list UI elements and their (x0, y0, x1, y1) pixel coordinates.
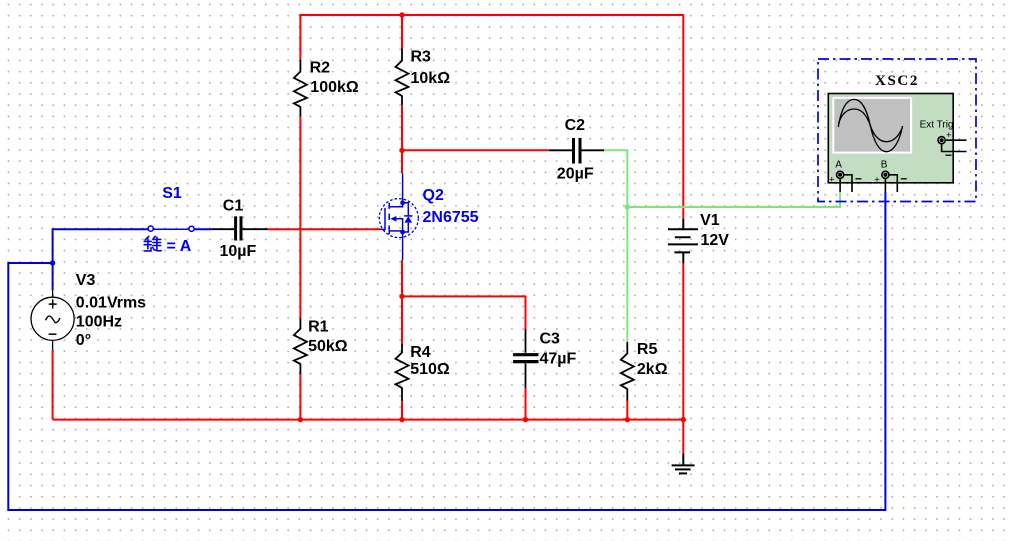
svg-text:12V: 12V (701, 232, 730, 249)
switch S1 (148, 226, 194, 231)
svg-text:2kΩ: 2kΩ (637, 361, 668, 378)
svg-text:= A: = A (167, 238, 192, 255)
battery V1 (668, 219, 698, 263)
wire green node to scope A (627, 192, 840, 207)
node junction rail/R1 (298, 417, 303, 422)
svg-text:2N6755: 2N6755 (423, 209, 479, 226)
wire input node up and right to S1 (53, 229, 149, 263)
svg-text:Ext Trig: Ext Trig (920, 119, 954, 130)
node junction V3/input (50, 260, 55, 265)
svg-text:0°: 0° (76, 332, 91, 349)
wire gate red from C1 to Q2 (268, 228, 381, 230)
label S1 key (144, 236, 161, 251)
svg-text:10kΩ: 10kΩ (411, 70, 451, 87)
oscilloscope XSC2 dashed box (818, 59, 976, 202)
node junction drain row (399, 148, 404, 153)
svg-text:+: + (874, 174, 880, 185)
wire Q2 source to source node (401, 260, 403, 296)
wire drain node to C2 (402, 149, 549, 151)
node junction top rail / R3 (399, 12, 404, 17)
svg-text:C1: C1 (223, 197, 244, 214)
wire C2 to green node (output net) (604, 150, 627, 342)
wire rail to ground (682, 420, 684, 454)
svg-text:R3: R3 (411, 48, 432, 65)
oscilloscope XSC2 body (828, 94, 953, 183)
svg-text:100kΩ: 100kΩ (310, 79, 359, 96)
oscilloscope Ext Trig connector (938, 137, 967, 152)
wire C3 bottom to rail (525, 388, 527, 420)
wire R2 bottom to R1 top (299, 116, 301, 318)
wire R1 bottom to rail (299, 374, 301, 420)
svg-text:10µF: 10µF (220, 243, 257, 260)
svg-text:Q2: Q2 (423, 187, 444, 204)
svg-text:+: + (829, 174, 835, 185)
node junction rail/R4 (399, 417, 404, 422)
ground (672, 453, 695, 473)
resistor R2 (294, 60, 307, 117)
node junction source row (399, 294, 404, 299)
oscilloscope waveform A (838, 99, 902, 151)
svg-text:S1: S1 (162, 185, 182, 202)
oscilloscope A connector (837, 171, 853, 192)
wire R2 top from rail (299, 14, 301, 60)
svg-text:47µF: 47µF (540, 350, 577, 367)
wire source node to C3 top (402, 296, 526, 329)
node junction rail/ground (681, 417, 686, 422)
wire V1 bottom to rail (682, 263, 684, 420)
label Ext Trig minus (946, 154, 952, 156)
svg-text:C3: C3 (540, 330, 561, 347)
svg-text:R2: R2 (310, 59, 331, 76)
wire R5 bottom to rail (626, 401, 628, 420)
oscilloscope B connector (882, 171, 897, 192)
svg-text:+: + (946, 130, 952, 141)
node junction green output (625, 204, 630, 209)
svg-text:C2: C2 (565, 117, 586, 134)
wire R3 top from rail (401, 14, 403, 49)
wire input node left to outer loop (8, 192, 885, 510)
svg-text:XSC2: XSC2 (875, 73, 919, 89)
svg-text:20µF: 20µF (557, 165, 594, 182)
svg-text:50kΩ: 50kΩ (308, 338, 348, 355)
wire top VDD rail (300, 14, 683, 16)
svg-text:B: B (881, 160, 888, 171)
source V3 (31, 290, 74, 350)
svg-text:R5: R5 (637, 341, 658, 358)
svg-text:100Hz: 100Hz (76, 314, 122, 331)
wire source node down to R4 (401, 296, 403, 343)
node junction rail/R5 (625, 417, 630, 422)
wire drain node down to Q2 (401, 150, 403, 173)
capacitor C2 (549, 138, 604, 164)
capacitor C1 (211, 216, 268, 240)
wire V3 bottom to rail (52, 350, 54, 420)
wire S1 to C1 (194, 228, 211, 230)
svg-text:R4: R4 (410, 344, 431, 361)
svg-text:R1: R1 (308, 319, 329, 336)
wire V3 top blue up to node (52, 263, 54, 290)
capacitor C3 (513, 329, 538, 388)
oscilloscope screen (833, 98, 911, 153)
svg-text:V1: V1 (700, 212, 720, 229)
transistor Q2 (379, 173, 418, 260)
label A minus (856, 178, 862, 180)
svg-text:0.01Vrms: 0.01Vrms (76, 295, 146, 312)
svg-text:A: A (835, 160, 842, 171)
node junction rail/C3 (523, 417, 528, 422)
label B minus (901, 178, 907, 180)
oscilloscope waveform B (839, 109, 903, 142)
resistor R3 (396, 49, 409, 106)
svg-text:V3: V3 (76, 272, 96, 289)
svg-text:510Ω: 510Ω (410, 361, 450, 378)
resistor R4 (396, 344, 409, 402)
wire R4 bottom to rail (401, 401, 403, 419)
resistor R5 (621, 342, 634, 401)
wire bottom ground rail (53, 419, 684, 421)
wire V1 top from rail (682, 14, 684, 219)
resistor R1 (294, 319, 307, 375)
wire R3 bottom to drain node (401, 105, 403, 150)
